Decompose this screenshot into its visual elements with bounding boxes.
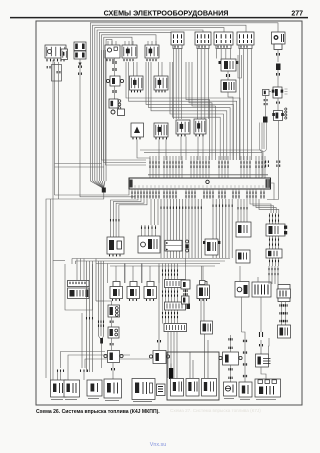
horizontal distribution wires above ECU bbox=[140, 150, 262, 160]
center bottom chain (x~229) bbox=[219, 335, 242, 382]
sensor box (x236 y222) bbox=[236, 222, 251, 237]
relay box C2 bbox=[122, 45, 137, 61]
relay box C3 bbox=[145, 45, 159, 61]
bottom box with theta (x~224) bbox=[224, 382, 237, 396]
three-wire splice funnel left-lower bbox=[99, 261, 104, 368]
svg-text:Схема 26. Система впрыска топл: Схема 26. Система впрыска топлива (К4J М… bbox=[36, 409, 160, 415]
splice wire down-left bbox=[46, 193, 104, 379]
left wire bundle x~103 with corner turns bbox=[102, 50, 147, 165]
dark blob component right bbox=[276, 64, 281, 88]
fuse holder outline below box 1 bbox=[47, 62, 61, 199]
wire from АИ box down bbox=[268, 338, 271, 354]
connector box 2 (small, right of box 1) bbox=[61, 49, 68, 60]
sensor box D2 bbox=[154, 62, 168, 92]
connector box 1 (top-left, instrument) bbox=[45, 45, 66, 61]
connector box bottom (x87) bbox=[87, 380, 102, 396]
injector 4 bbox=[197, 266, 210, 301]
wires below B3 bbox=[217, 49, 231, 59]
ticks below connector L bbox=[270, 258, 279, 266]
fuse tail below E1 bbox=[274, 44, 282, 50]
sub-connector 1 in assembly bbox=[171, 379, 184, 397]
connector box bottom M (x104) bbox=[104, 379, 122, 398]
thin strip above ECU bar bbox=[148, 174, 268, 176]
junction component 2 right (x278) bbox=[272, 98, 287, 121]
wire loop around control unit box bbox=[65, 259, 93, 311]
wires from ECU to box J bbox=[142, 199, 159, 236]
junction component (cross) left-mid bbox=[106, 76, 123, 86]
junction component right (x278) bbox=[272, 87, 288, 98]
solenoid box mid-center bbox=[221, 80, 236, 92]
side box left of junction bbox=[263, 89, 272, 117]
multi-element box (x252) bbox=[252, 282, 271, 297]
sensor box (x236 y250) bbox=[236, 250, 250, 263]
connector marks below junction bbox=[109, 86, 121, 109]
wires feeding right column bbox=[186, 258, 279, 335]
relay box with side contacts (x165) bbox=[165, 240, 189, 252]
wire bundle below bar (x 213-232) bbox=[213, 199, 232, 258]
inline connector bar 1 bbox=[165, 280, 191, 288]
right chain connector K bbox=[266, 213, 287, 236]
sensor box F3 bbox=[176, 120, 190, 136]
twin connector box bottom-left 1 bbox=[51, 380, 67, 397]
stacked connector chain x185 bbox=[181, 280, 190, 304]
svg-text:Схема 27. Система впрыска топл: Схема 27. Система впрыска топлива (К7J) bbox=[170, 408, 261, 413]
wires left of ECU bar bbox=[55, 62, 136, 199]
arrow wire below E1 bbox=[277, 50, 280, 63]
tick chain below inline connector bbox=[280, 302, 287, 326]
bottom-right connector box (ЛУБ) bbox=[255, 379, 281, 397]
ferrite blob on shield bbox=[263, 117, 268, 123]
left bundle ticks lower bbox=[87, 261, 93, 372]
twin connector box bottom-left 2 bbox=[64, 380, 80, 397]
svg-text:277: 277 bbox=[291, 11, 303, 18]
small box with bars (x156) bbox=[157, 384, 166, 396]
wire harness nest from D boxes to ECU bundle bbox=[126, 62, 240, 160]
sensor box F2 bbox=[154, 123, 168, 139]
inline connector bar 3 bbox=[164, 324, 187, 332]
injector 3 bbox=[142, 264, 160, 301]
ECU main connector bar bbox=[129, 178, 274, 200]
lambda sensor box with circle bbox=[235, 282, 249, 298]
wire from solenoid down bbox=[228, 92, 233, 160]
horizontal wires left of funnel bbox=[55, 164, 104, 168]
right chain connector L bbox=[266, 249, 282, 258]
device box J with circle bbox=[138, 236, 160, 253]
wires descending to bottom-left connectors bbox=[51, 60, 151, 380]
wires from ECU to box I bbox=[111, 199, 148, 237]
harness funnel converging to splice bbox=[91, 181, 106, 193]
relay box lower-center-left bbox=[203, 239, 220, 255]
sensor box D1 bbox=[130, 62, 144, 92]
sub-connector 2 in assembly bbox=[186, 379, 199, 397]
injector 2 bbox=[125, 264, 143, 301]
diagram outer frame bbox=[36, 21, 302, 405]
ECU connector pins above bar bbox=[150, 156, 265, 178]
connector box bottom N (x132) bbox=[132, 379, 155, 400]
relay component mid-center bbox=[219, 59, 239, 71]
wires from connector bars to assembly bbox=[168, 332, 208, 379]
ECU connector pins below bar bbox=[132, 189, 264, 199]
wires below B1 bbox=[174, 49, 182, 119]
wires below B2 bbox=[198, 49, 209, 119]
device box E1 (top far right) bbox=[272, 32, 286, 44]
shielded cable symbol bbox=[260, 123, 267, 178]
wire loop harness (nested loops top-left) bbox=[90, 23, 278, 181]
wire bundle from upper boxes to ECU bbox=[186, 62, 216, 160]
junction with taps (x~113 y357) bbox=[104, 351, 123, 380]
switch box C1 with circle bbox=[105, 45, 120, 61]
wires below coil bbox=[201, 299, 204, 322]
wires below B4 bbox=[240, 49, 252, 160]
small box above big assembly bbox=[201, 321, 213, 334]
horizontal distribution wires mid-lower bbox=[53, 259, 230, 267]
fuse box B3 bbox=[214, 32, 233, 49]
inline connector chain left-mid bbox=[113, 58, 116, 76]
svg-text:Vnx.su: Vnx.su bbox=[150, 442, 166, 448]
wires to right components below bar bbox=[238, 199, 279, 222]
connector stack 3 (top-left) bbox=[74, 42, 86, 59]
inline connector bar 2 bbox=[165, 302, 191, 310]
right bottom junction with taps bbox=[256, 332, 271, 367]
narrow wire loop right of chain bbox=[238, 55, 242, 78]
control unit box (МУЛ) bbox=[68, 281, 90, 299]
wire from junction to bottom-right box bbox=[261, 367, 266, 379]
wire stubs from loops into C boxes bbox=[108, 41, 156, 45]
sensor box F4 bbox=[194, 119, 206, 136]
wire with arrow below connector stack 3 bbox=[78, 59, 81, 66]
inline connector (x277) bbox=[277, 285, 291, 302]
bottom chain (x~245) bbox=[239, 335, 252, 397]
sub-connector 3 in assembly bbox=[202, 379, 217, 397]
fuse box B2 bbox=[195, 32, 211, 49]
fuse box B4 bbox=[237, 32, 254, 49]
long wire from junction2 to lower right bbox=[266, 121, 280, 200]
large assembly box bottom-center bbox=[167, 352, 219, 400]
junction with taps (x~159 y357) bbox=[149, 266, 169, 364]
connector box I bbox=[107, 237, 124, 256]
small connector box (АИ) bbox=[278, 325, 291, 338]
tiny labels under bottom boxes bbox=[51, 399, 276, 402]
sensor box F1 (with triangle) bbox=[131, 123, 144, 139]
wires from F boxes to ECU region bbox=[137, 137, 203, 162]
injector 1 bbox=[108, 264, 126, 301]
ticks below connector K bbox=[270, 236, 279, 249]
header rule bbox=[10, 17, 308, 19]
thick dark bar component bbox=[169, 364, 173, 380]
ground symbol with circle left-mid bbox=[111, 109, 125, 116]
connector ticks between relay and box bbox=[227, 71, 230, 80]
fuse box B1 bbox=[171, 32, 184, 49]
svg-text:СХЕМЫ ЭЛЕКТРООБОРУДОВАНИЯ: СХЕМЫ ЭЛЕКТРООБОРУДОВАНИЯ bbox=[104, 9, 229, 18]
wire bundle center below bar with ticks bbox=[161, 199, 201, 258]
left lower chain: stacked sensor boxes with circles bbox=[104, 301, 120, 350]
ignition coil component bbox=[197, 281, 210, 299]
six-wire bundle with inline connector bars bbox=[163, 264, 178, 324]
